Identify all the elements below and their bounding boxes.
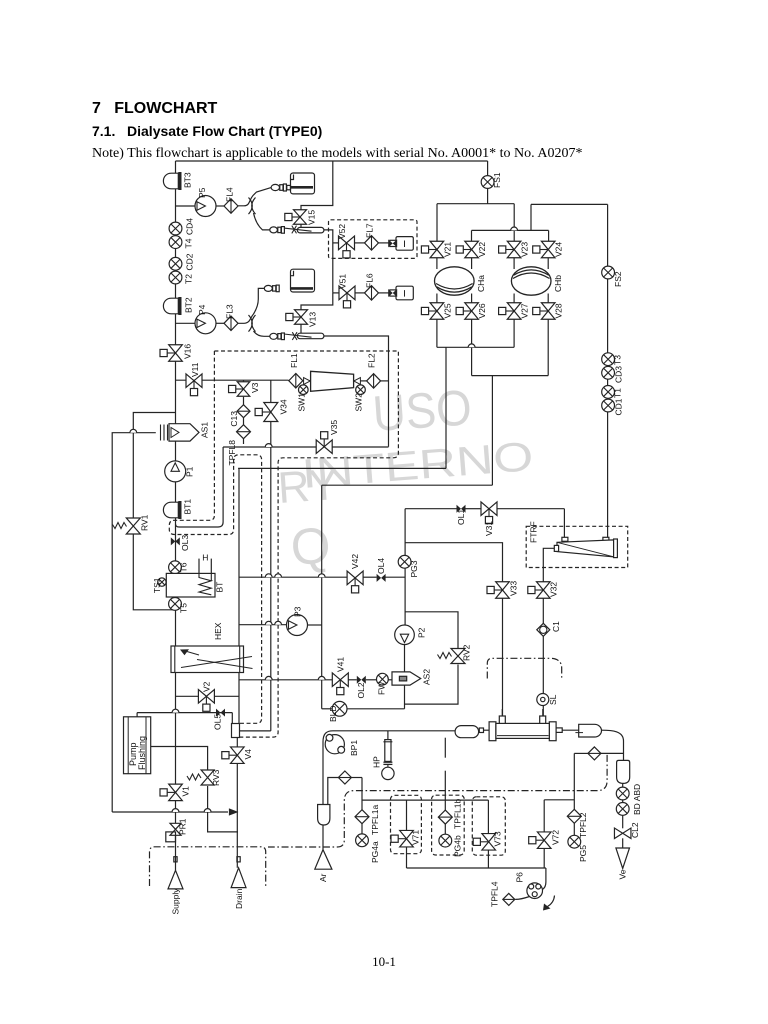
sensor CD2 <box>169 257 182 270</box>
wire to needle port 1 <box>254 213 272 230</box>
wire rinse bus bottom <box>406 847 408 868</box>
wire V23 to CHb <box>513 258 515 269</box>
wire OL5 branch <box>136 713 138 717</box>
hop V42 wire 1b <box>275 574 282 577</box>
check valve C1 <box>537 623 550 636</box>
hop bottom wire 2 <box>204 809 211 812</box>
svg-text:PG4b: PG4b <box>453 835 463 857</box>
svg-text:BLD: BLD <box>328 705 338 722</box>
disinfectant bottle FL7 <box>396 237 413 251</box>
valve V23 <box>499 241 521 258</box>
svg-text:V51: V51 <box>338 274 348 289</box>
rinse container 2 <box>291 269 315 292</box>
wire chamber drain B <box>491 376 493 486</box>
sensor T1 <box>602 386 615 399</box>
svg-text:V34: V34 <box>279 399 289 414</box>
svg-text:CD3: CD3 <box>614 366 624 383</box>
svg-text:V35: V35 <box>329 420 339 435</box>
wire V33 branch <box>405 543 502 582</box>
wire CHa to V26 <box>471 294 473 303</box>
supply funnel <box>168 870 183 889</box>
sensor SW1 <box>299 385 309 395</box>
svg-text:V27: V27 <box>520 303 530 318</box>
hop P3 wire <box>265 621 272 624</box>
svg-text:Ar: Ar <box>318 873 328 882</box>
cone tap 2 <box>354 378 361 385</box>
wire V42 branch <box>239 576 348 578</box>
pump P2 <box>395 625 415 645</box>
svg-text:P6: P6 <box>515 872 525 883</box>
svg-text:FL2: FL2 <box>367 353 377 368</box>
valve V1 <box>160 784 182 801</box>
wire FTRF left feed <box>563 509 565 538</box>
sensor SL <box>537 694 549 706</box>
wire P5 branch <box>176 205 196 207</box>
svg-text:V4: V4 <box>243 749 253 760</box>
wire P4 branch <box>176 322 196 324</box>
wire V41 branch <box>239 679 332 681</box>
dashed box TPFL1b <box>432 795 465 855</box>
wire dialysate to dialyzer 2 <box>542 636 544 716</box>
restrictor FL7 <box>365 236 379 251</box>
svg-text:TPFL1a: TPFL1a <box>370 804 380 835</box>
valve V16 <box>160 345 182 362</box>
svg-text:TPFL4: TPFL4 <box>490 881 500 907</box>
level sensor OL5 <box>216 709 225 717</box>
wire V23 drop <box>513 204 515 242</box>
valve V2 <box>198 690 214 712</box>
dashed box V73 <box>472 797 505 855</box>
svg-text:BT1: BT1 <box>183 499 193 515</box>
wire heparin tap <box>387 731 389 740</box>
venous chamber <box>579 724 602 737</box>
svg-text:FL4: FL4 <box>225 187 235 202</box>
valve V26 <box>456 303 478 320</box>
svg-text:7.1. Dialysate Flow Chart (T: 7.1. Dialysate Flow Chart (TYPE0) <box>92 123 322 139</box>
wire V22 to CHa <box>471 258 473 269</box>
blood pump BP1 <box>325 735 344 754</box>
wire CHb to V28 <box>547 294 549 303</box>
sampling pump P6 <box>527 883 543 899</box>
wire manifold B <box>472 229 549 231</box>
svg-text:Drain: Drain <box>234 888 244 909</box>
svg-text:OL3: OL3 <box>180 535 190 551</box>
drain fitting <box>237 857 240 862</box>
valve V52 <box>339 236 355 258</box>
restrictor FL6 <box>365 286 379 301</box>
svg-text:PG3: PG3 <box>409 560 419 577</box>
svg-text:T5: T5 <box>179 603 189 613</box>
valve V51 <box>339 286 355 308</box>
gauge PG4a <box>356 834 369 847</box>
svg-text:V33: V33 <box>509 581 519 596</box>
venous air trap <box>617 760 630 783</box>
pressure reducer PR1 <box>170 823 181 835</box>
wire mid riser <box>321 485 323 709</box>
dash-dot boundary blood circuit bottom <box>268 755 607 847</box>
valve V22 <box>456 241 478 258</box>
hop P3 wire b <box>275 621 282 624</box>
valve V71 <box>391 830 413 847</box>
valve V34 <box>255 403 278 422</box>
valve V11 <box>186 374 202 396</box>
svg-text:V23: V23 <box>520 242 530 257</box>
hop manifold A bottom <box>468 344 475 347</box>
restrictor TPFL4 <box>503 893 515 905</box>
svg-text:FL7: FL7 <box>365 223 375 238</box>
hop AS1 feed over RV1 line <box>130 429 137 432</box>
svg-text:OL1: OL1 <box>456 509 466 525</box>
svg-text:V28: V28 <box>554 303 564 318</box>
dashed sampling loop left <box>169 351 261 723</box>
wire RV3 branch <box>151 747 208 770</box>
wire P6 outlet to TPFL4 <box>515 897 529 900</box>
vent funnel Ve <box>616 848 630 869</box>
wire arterial pressure branch <box>328 778 339 805</box>
FTRF filter <box>562 537 568 541</box>
sensor T6 <box>169 561 182 574</box>
svg-text:Q: Q <box>289 516 333 576</box>
svg-text:HEX: HEX <box>213 622 223 640</box>
wire drain B to bundle <box>322 484 493 486</box>
svg-text:V13: V13 <box>308 312 318 327</box>
wire blood line BP1 to dialyzer <box>323 731 455 742</box>
wire dialyzer couplings <box>483 729 489 731</box>
wire V26 drop <box>471 319 473 375</box>
wire V34 drain down <box>270 422 272 731</box>
svg-text:V22: V22 <box>477 242 487 257</box>
gauge PG3 <box>398 555 411 568</box>
rinse container 1 <box>291 173 315 194</box>
wire V51 branch <box>333 292 340 294</box>
svg-text:CD1: CD1 <box>614 398 624 415</box>
wire venous return <box>562 729 579 731</box>
wire BLD branch <box>322 708 332 710</box>
hop V41 wire 2 <box>318 676 325 679</box>
wire to rinse container 2 <box>238 288 264 323</box>
panel grommet lower <box>252 315 256 332</box>
dialyzer <box>489 722 496 741</box>
valve V21 <box>421 241 443 258</box>
valve V15 <box>285 210 307 225</box>
wire manifold B bottom <box>472 375 549 377</box>
svg-text:PG4a: PG4a <box>370 841 380 863</box>
wire PG4b column <box>444 738 446 758</box>
pump P1 <box>165 461 186 482</box>
wire P3 branch <box>239 624 287 626</box>
svg-text:C1: C1 <box>551 621 561 632</box>
svg-text:C13: C13 <box>229 411 239 427</box>
svg-text:V52: V52 <box>337 224 347 239</box>
restrictor FL1 <box>289 373 303 388</box>
dashed box disinfectant V52/FL7 <box>329 220 418 259</box>
svg-text:10-1: 10-1 <box>372 954 396 969</box>
wire V34 tap <box>270 380 272 402</box>
svg-text:Flushing: Flushing <box>137 736 147 770</box>
wire CHb to V27 <box>513 294 515 303</box>
svg-text:RV3: RV3 <box>211 769 221 786</box>
pump P3 <box>287 615 308 636</box>
gauge PG5 <box>568 835 581 848</box>
panel grommet upper <box>252 198 256 215</box>
wire arterial drop <box>322 742 324 805</box>
needle port 1 <box>297 227 324 233</box>
svg-text:V71: V71 <box>411 830 421 845</box>
level sensor OL1 <box>457 505 466 513</box>
sensor TS1 <box>158 578 166 586</box>
rotation arrow P6 <box>548 896 555 907</box>
relief valve RV2 <box>451 649 465 664</box>
svg-text:TPFL8: TPFL8 <box>227 440 237 466</box>
clamp CL2 <box>614 828 631 839</box>
wire P6 inlet <box>542 868 546 890</box>
wire FS2/concentration line <box>607 204 609 537</box>
wire venous pressure branch <box>601 752 624 754</box>
wire V34 drain to fitting <box>240 730 271 732</box>
svg-text:V25: V25 <box>443 303 453 318</box>
svg-text:T2: T2 <box>184 274 194 284</box>
svg-text:CD2: CD2 <box>185 253 195 270</box>
wire V13 feed jog <box>301 293 333 310</box>
svg-text:FTRF: FTRF <box>529 521 539 543</box>
svg-text:SL: SL <box>548 694 558 705</box>
restrictor TPFL8 <box>237 425 251 439</box>
svg-text:V42: V42 <box>350 554 360 569</box>
svg-text:OL4: OL4 <box>376 558 386 574</box>
wire blood-leak manifold <box>362 799 488 801</box>
svg-text:P3: P3 <box>293 606 303 617</box>
wire V3 tap <box>243 380 245 381</box>
svg-text:Supply: Supply <box>171 888 181 915</box>
wire V52 branch <box>354 242 365 244</box>
dashed box V71 <box>391 795 422 853</box>
connector rinse 1 <box>271 184 279 190</box>
svg-text:CL2: CL2 <box>630 822 640 838</box>
svg-text:V21: V21 <box>443 242 453 257</box>
deaeration cone <box>311 371 354 391</box>
svg-text:OL5: OL5 <box>213 714 223 730</box>
svg-text:TPFL2: TPFL2 <box>578 812 588 838</box>
svg-text:CHa: CHa <box>476 275 486 292</box>
svg-text:FS1: FS1 <box>492 172 502 188</box>
svg-text:P4: P4 <box>197 304 207 315</box>
wire V27 drop <box>513 319 515 347</box>
wire left border AS1 feed <box>112 433 156 812</box>
watermark <box>276 379 535 576</box>
wire V21 to CHa <box>436 258 438 269</box>
restrictor TPFL1a <box>355 810 369 824</box>
sensor T5 <box>169 598 182 611</box>
sensor FW <box>377 673 389 685</box>
svg-text:CHb: CHb <box>553 275 563 292</box>
dashed box FTRF <box>526 526 628 567</box>
pump flushing box <box>124 717 151 774</box>
valve V3 <box>229 382 250 397</box>
arterial chamber <box>455 726 479 738</box>
wire top supply bus <box>176 160 488 162</box>
sensor T3 <box>602 353 615 366</box>
sensor CD4 <box>169 222 182 235</box>
svg-text:V73: V73 <box>493 831 503 846</box>
heat exchanger HEX <box>171 646 244 673</box>
air damper BT1 <box>163 501 181 519</box>
wire P2/AS2 column <box>404 625 406 672</box>
sensor FS2 <box>602 266 615 279</box>
sensor ABD <box>616 803 629 816</box>
wire FS1 drop <box>487 161 489 176</box>
svg-text:Ve: Ve <box>618 869 628 879</box>
wire deaeration line FL1-cone-FL2 <box>302 380 310 382</box>
svg-text:V2: V2 <box>202 681 212 692</box>
wire needle port1 to V52/V51 column <box>324 230 333 293</box>
svg-text:Note) This flowchart is applic: Note) This flowchart is applicable to th… <box>92 146 582 161</box>
hop OL5 wire <box>172 709 179 712</box>
air separator AS1 <box>169 424 199 441</box>
svg-text:BP1: BP1 <box>349 740 359 756</box>
sensor CD3 <box>602 366 615 379</box>
hop manifold B <box>511 227 518 230</box>
svg-text:AS2: AS2 <box>422 669 432 685</box>
svg-text:BT3: BT3 <box>183 172 193 188</box>
flow arrow <box>230 809 237 815</box>
hop V42 wire 1 <box>265 574 272 577</box>
wire bottom left collect <box>112 811 228 813</box>
svg-text:V26: V26 <box>477 303 487 318</box>
wire RV2 loop <box>405 612 458 648</box>
restrictor FL3 <box>224 316 238 331</box>
relief valve RV3 <box>201 770 214 785</box>
svg-text:FW: FW <box>377 682 387 695</box>
restrictor TPFL1b <box>438 810 452 824</box>
svg-text:V72: V72 <box>551 830 561 845</box>
sensor FS1 <box>481 176 494 189</box>
disinfectant bottle FL6 <box>396 286 413 300</box>
connector rinse 2 <box>264 285 272 291</box>
wire V72 feed <box>543 800 545 832</box>
wire V35 return <box>223 446 317 448</box>
svg-text:BT2: BT2 <box>184 297 194 313</box>
wire to needle port 2 <box>254 331 272 336</box>
sensor BLD <box>332 701 347 716</box>
valve V13 <box>286 310 308 325</box>
sensor T2 <box>169 271 182 284</box>
svg-text:T3: T3 <box>613 355 623 365</box>
level sensor OL3 <box>171 537 180 545</box>
svg-text:USO: USO <box>371 379 474 442</box>
valve V41 <box>332 673 348 695</box>
svg-text:V15: V15 <box>307 210 317 225</box>
wire V21 drop <box>436 204 438 242</box>
svg-text:PR1: PR1 <box>178 818 188 835</box>
valve V35 <box>316 432 332 454</box>
wire dialysate to dialyzer 1 <box>502 598 504 716</box>
check valve venous <box>588 747 601 760</box>
svg-text:OL2: OL2 <box>356 682 366 698</box>
rinse fitting block <box>232 724 240 738</box>
hop V41 wire 1 <box>265 676 272 679</box>
valve V72 <box>529 832 551 849</box>
wire V22/V24 feed drop <box>530 204 532 230</box>
svg-text:V31: V31 <box>484 521 494 536</box>
level sensor OL2 <box>357 676 366 684</box>
sensor SW2 <box>356 385 366 395</box>
sensor T4 <box>169 236 182 249</box>
svg-text:FL1: FL1 <box>289 353 299 368</box>
dashed sampling loop top/right <box>214 351 398 737</box>
cone tap 1 <box>304 378 311 385</box>
valve V24 <box>533 241 555 258</box>
wire manifold B top <box>531 203 608 205</box>
check valve C13 <box>237 405 250 418</box>
air damper BT3 <box>163 172 181 190</box>
svg-text:RV2: RV2 <box>462 644 472 661</box>
svg-text:T6: T6 <box>179 562 189 572</box>
wire RV1 branch <box>133 413 175 519</box>
svg-text:P2: P2 <box>417 627 427 638</box>
check valve arterial <box>338 771 351 784</box>
valve V32 <box>528 582 550 599</box>
wire V28 drop <box>547 319 549 375</box>
valve V28 <box>533 303 555 320</box>
svg-text:V24: V24 <box>554 242 564 257</box>
valve V73 <box>473 834 495 851</box>
level sensor OL4 <box>377 574 386 582</box>
wire BT heater leads <box>198 559 200 574</box>
svg-text:SW2: SW2 <box>354 393 364 412</box>
pump P4 <box>195 313 216 334</box>
heparin pump HP <box>385 740 391 762</box>
drain funnel <box>231 868 246 888</box>
svg-text:H: H <box>202 553 208 563</box>
wire PG3 riser <box>404 509 406 625</box>
restrictor FL4 <box>224 199 238 214</box>
svg-text:TS1: TS1 <box>152 577 162 593</box>
hop V42 wire 2 <box>318 574 325 577</box>
wire TPFL2 column <box>573 753 575 809</box>
relief valve RV1 <box>126 518 140 534</box>
hop bottom wire 1 <box>172 809 179 812</box>
hop V35 wire <box>265 444 272 447</box>
wire V4 drain <box>236 738 238 748</box>
needle port 2 <box>297 333 324 339</box>
wire TPFL1a column <box>361 778 363 811</box>
svg-text:V3: V3 <box>250 382 260 393</box>
dash-dot boundary supply/drain <box>150 847 266 886</box>
valve V4 <box>222 747 244 764</box>
svg-text:V41: V41 <box>336 657 346 672</box>
wire chamber drain A <box>445 347 447 468</box>
wire V31 branch <box>405 508 456 510</box>
valve V27 <box>499 303 521 320</box>
valve V33 <box>487 582 509 599</box>
svg-text:PG5: PG5 <box>578 845 588 862</box>
chamber CHb <box>511 267 551 295</box>
svg-text:SW1: SW1 <box>297 393 307 412</box>
svg-text:V32: V32 <box>549 582 559 597</box>
wire V24 to CHb <box>547 258 549 269</box>
wire FTRF outlet / V32 <box>543 548 555 582</box>
svg-text:BT: BT <box>215 582 225 593</box>
sensor CD1 <box>602 399 615 412</box>
svg-text:AS1: AS1 <box>200 422 210 438</box>
gauge PG4b <box>439 834 452 847</box>
pump P5 <box>195 196 216 217</box>
heater tank BT <box>166 573 215 597</box>
wire HEX drain main <box>238 468 240 646</box>
wire left main supply line <box>175 161 177 870</box>
valve V31 <box>481 502 497 524</box>
restrictor TPFL2 <box>567 809 581 823</box>
